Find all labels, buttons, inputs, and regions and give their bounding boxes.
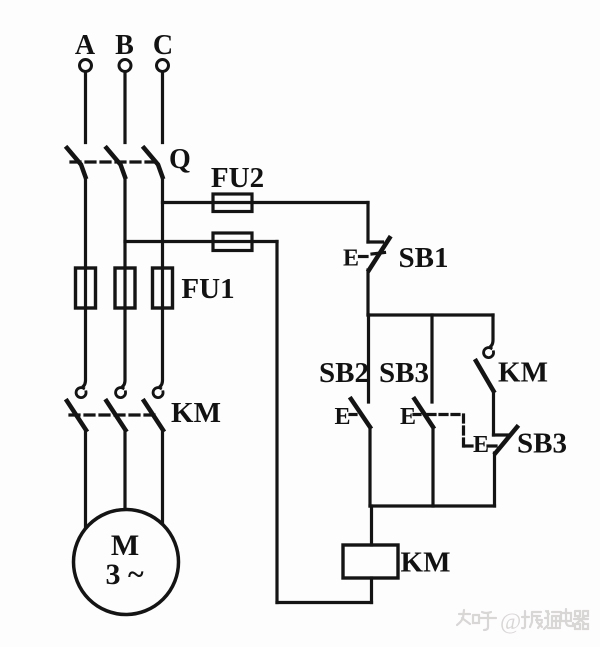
- button SB3 NC actuator dash right: [488, 444, 497, 447]
- button SB3 NC actuator dashes: [465, 444, 476, 447]
- button SB2 NO blade: [351, 399, 370, 427]
- fuse FU2 lower box: [213, 233, 252, 251]
- contactor KM main contact B blade: [107, 401, 126, 430]
- wire SB1 drop from FU2 upper: [366, 203, 369, 243]
- svg-text:C: C: [153, 30, 173, 61]
- watermark 知乎 @振通电器: [457, 609, 588, 634]
- watermark char 振: [522, 611, 542, 628]
- button SB1 actuator dash: [360, 255, 368, 258]
- wire phase A terminal to switch: [84, 72, 87, 143]
- wire KM aux to SB3 NC: [492, 391, 495, 435]
- watermark char 电: [561, 609, 573, 626]
- wire SB2 branch upper: [367, 315, 370, 402]
- linkage dashed line SB3 to lower SB3 contact: [428, 415, 464, 447]
- svg-text:FU2: FU2: [211, 162, 264, 194]
- switch Q linkage dashed line: [71, 160, 157, 163]
- button SB1 NC blade: [369, 238, 390, 270]
- contactor KM linkage dashed line: [70, 413, 155, 416]
- wire SB1 to node: [366, 270, 369, 315]
- wire top rail of parallel branches: [368, 313, 493, 316]
- wire FU2 lower drop to coil bottom rail: [275, 242, 278, 603]
- wire phase A FU1 to KM contact: [84, 308, 86, 386]
- wire control feed lower from phase B through FU2 second fuse: [125, 240, 277, 243]
- button SB3 NC fixed contact bar: [494, 433, 510, 436]
- svg-text:A: A: [75, 30, 96, 61]
- contactor KM main contact B arc: [116, 388, 126, 398]
- wire SB3 NC lower: [493, 453, 496, 506]
- svg-text:SB1: SB1: [399, 242, 449, 274]
- button SB1 NC fixed contact bar: [368, 240, 383, 243]
- watermark char 通: [544, 611, 561, 629]
- wire phase C switch to fuse FU1 (junction at y=202): [161, 177, 164, 308]
- fuse FU1 phase A box: [76, 268, 96, 308]
- contactor KM main contact C arc: [153, 388, 163, 398]
- wire phase B KM to motor: [123, 430, 126, 510]
- svg-text:SB2: SB2: [319, 357, 369, 389]
- wire coil bottom: [370, 578, 373, 603]
- svg-text:3 ~: 3 ~: [105, 558, 144, 591]
- fuse FU2 upper box: [213, 194, 252, 212]
- svg-text:B: B: [115, 30, 134, 61]
- wire phase B terminal to switch: [123, 72, 126, 143]
- wire bottom return rail: [277, 601, 372, 604]
- button SB3 NO blade: [415, 399, 434, 427]
- button SB1 actuator dash crossing blade: [372, 253, 385, 255]
- wire phase A KM to motor: [84, 430, 87, 529]
- wire SB2 branch lower: [368, 427, 371, 506]
- wire bottom rail of parallel branches: [370, 504, 495, 507]
- wire phase C FU1 to KM contact: [161, 308, 163, 386]
- switch Q pole C blade: [144, 148, 163, 177]
- svg-text:E: E: [400, 404, 416, 430]
- wire phase C terminal to switch: [161, 72, 164, 143]
- svg-text:KM: KM: [498, 357, 548, 389]
- contactor KM main contact C blade: [144, 401, 163, 430]
- coil KM box: [343, 545, 398, 578]
- contactor KM main contact A blade: [67, 401, 86, 430]
- svg-text:KM: KM: [171, 397, 221, 429]
- contactor KM aux blade: [476, 361, 494, 391]
- wire phase C KM to motor: [161, 430, 164, 525]
- svg-text:FU1: FU1: [181, 273, 234, 305]
- contactor KM aux contact arc: [484, 348, 494, 358]
- watermark char 器: [574, 611, 588, 629]
- fuse FU1 phase C box: [153, 268, 173, 308]
- wire coil feed: [370, 506, 373, 545]
- wire phase B FU1 to KM contact: [123, 308, 125, 386]
- terminal C circle: [157, 60, 169, 72]
- svg-text:@: @: [500, 609, 521, 634]
- watermark char 知: [457, 610, 479, 625]
- contactor KM main contact A arc: [76, 388, 86, 398]
- svg-text:Q: Q: [169, 144, 191, 175]
- wire phase A switch to fuse FU1: [84, 177, 87, 308]
- watermark char 乎: [480, 612, 496, 630]
- button SB3 NC blade: [496, 427, 518, 453]
- switch Q pole B blade: [107, 148, 126, 177]
- svg-text:SB3: SB3: [379, 357, 429, 389]
- terminal B circle: [119, 60, 131, 72]
- button SB2 actuator dashes: [350, 413, 358, 416]
- fuse FU1 phase B box: [115, 268, 135, 308]
- wire SB3 branch lower: [431, 427, 434, 506]
- button SB3 actuator dashes: [414, 413, 422, 416]
- terminal A circle: [80, 60, 92, 72]
- wire control feed upper from phase C through FU2 to SB1: [163, 201, 369, 204]
- switch Q pole A blade: [67, 148, 86, 177]
- svg-text:E: E: [334, 404, 350, 430]
- wire SB3 branch upper: [430, 315, 433, 402]
- wire KM aux branch upper: [491, 315, 493, 346]
- motor M circle: [74, 510, 179, 615]
- svg-text:SB3: SB3: [517, 428, 567, 460]
- svg-text:E: E: [343, 246, 359, 272]
- wire phase B switch to fuse FU1 (junction at y=241): [123, 177, 126, 308]
- svg-text:KM: KM: [401, 547, 451, 579]
